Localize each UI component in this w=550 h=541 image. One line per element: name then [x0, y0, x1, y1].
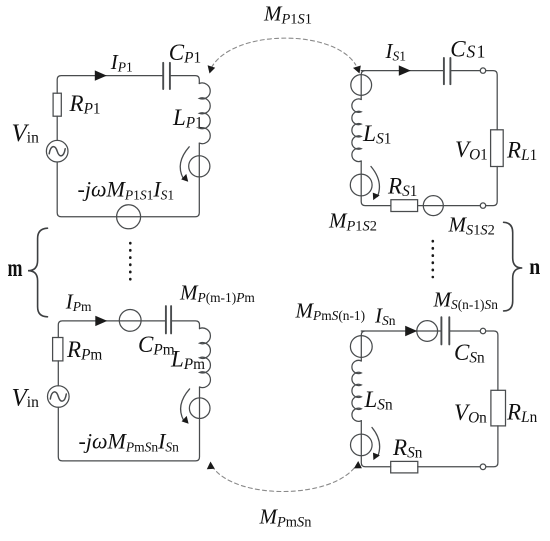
capacitor CS1 plates — [444, 58, 451, 84]
svg-text:Vin: Vin — [12, 385, 40, 412]
svg-text:VO1: VO1 — [455, 137, 488, 164]
svg-text:LPm: LPm — [170, 347, 205, 374]
rotation arrow near LP1 source — [180, 147, 189, 179]
arrowhead left of MPmSn arc — [207, 462, 215, 470]
AC source Vin sine (bottom) — [50, 392, 66, 401]
arrowhead right of MPmSn arc — [354, 461, 362, 468]
svg-text:CPm: CPm — [138, 332, 175, 359]
svg-text:n: n — [529, 254, 540, 280]
rotation arrowhead Sn — [373, 453, 380, 461]
wire loop S1 (top-right circuit) — [361, 71, 497, 206]
source circle on top wire Sn — [417, 321, 438, 342]
current arrow IP1 — [95, 70, 107, 80]
svg-text:RS1: RS1 — [387, 174, 417, 201]
capacitor CP1 plates — [163, 63, 170, 89]
svg-text:RP1: RP1 — [69, 91, 101, 118]
svg-text:MS1S2: MS1S2 — [448, 213, 495, 239]
capacitor CSn plates — [441, 317, 449, 344]
inductor LSn coil — [352, 360, 361, 421]
coupled source circle upper-left Sn — [350, 336, 372, 358]
coupled source circle lower-left Sn — [351, 434, 373, 456]
svg-text:IPm: IPm — [65, 289, 92, 314]
AC source Vin sine — [49, 147, 65, 156]
coupled source circle bottom-left S1 — [350, 174, 372, 196]
terminal circle bottom S1 — [480, 203, 485, 208]
mutual inductance dashed arc MPmSn — [212, 465, 357, 492]
terminal circle bottom Sn — [480, 464, 486, 470]
svg-text:LSn: LSn — [364, 387, 393, 414]
svg-text:MPmS(n-1): MPmS(n-1) — [295, 299, 366, 324]
svg-text:CSn: CSn — [454, 340, 485, 367]
rotation arrow near LS1 source — [371, 167, 379, 197]
svg-text:IS1: IS1 — [385, 39, 407, 64]
rotation arrow near LPm source — [181, 389, 190, 420]
current arrow IPm — [95, 316, 107, 326]
svg-text:m: m — [8, 253, 23, 282]
svg-text:Vin: Vin — [12, 120, 40, 147]
AC source Vin circle (bottom) — [48, 386, 70, 408]
capacitor CPm plates — [166, 306, 171, 333]
svg-text:MP(m-1)Pm: MP(m-1)Pm — [179, 280, 255, 305]
terminal circle top Sn — [480, 328, 485, 333]
inductor LP1 coil — [199, 83, 210, 144]
svg-text:RLn: RLn — [506, 400, 538, 427]
source circle on bottom wire S1 — [423, 196, 443, 216]
dotted ellipsis left — [129, 243, 132, 281]
dependent source circle on right wire Pm — [189, 398, 210, 419]
inductor LS1 coil — [352, 99, 361, 162]
svg-text:CS1: CS1 — [450, 37, 485, 62]
svg-text:LS1: LS1 — [362, 121, 391, 148]
svg-text:MP1S2: MP1S2 — [328, 209, 377, 235]
resistor RL1 — [491, 130, 504, 167]
svg-text:MS(n-1)Sn: MS(n-1)Sn — [433, 288, 499, 313]
svg-text:VOn: VOn — [454, 400, 487, 427]
dependent source circle on right wire P1 — [189, 156, 210, 177]
dotted ellipsis right — [431, 241, 434, 277]
mutual inductance dashed arc MP1S1 — [212, 38, 356, 67]
arrowhead left of MP1S1 arc — [208, 65, 216, 73]
inductor LPm coil — [200, 328, 211, 388]
svg-text:CP1: CP1 — [169, 40, 201, 67]
AC source Vin circle (top) — [46, 140, 68, 162]
resistor RLn — [491, 390, 506, 426]
current arrow IS1 — [399, 65, 411, 75]
rotation arrowhead S1 — [373, 193, 380, 201]
wire loop P1 (top-left circuit) — [57, 76, 199, 217]
svg-text:RPm: RPm — [66, 337, 102, 364]
terminal circle top S1 — [480, 68, 485, 73]
svg-text:MPmSn: MPmSn — [259, 505, 312, 531]
svg-text:IP1: IP1 — [110, 50, 133, 75]
svg-text:RSn: RSn — [392, 435, 423, 462]
arrowhead right of MP1S1 arc — [353, 66, 361, 74]
svg-text:MP1S1: MP1S1 — [263, 2, 312, 28]
svg-text:-jωMPmSnISn: -jωMPmSnISn — [79, 429, 180, 455]
resistor RS1 — [391, 200, 418, 212]
wire loop Sn (bottom-right circuit) — [361, 331, 498, 467]
resistor RSn — [391, 461, 418, 473]
rotation arrow near LSn source — [372, 428, 380, 457]
brace n (right) — [504, 222, 523, 311]
wire loop Pm (bottom-left circuit) — [58, 321, 199, 461]
brace m (left) — [28, 228, 48, 317]
rotation arrowhead P1 — [181, 174, 188, 182]
svg-text:-jωMP1S1IS1: -jωMP1S1IS1 — [78, 176, 175, 202]
rotation arrowhead Pm — [182, 416, 189, 424]
source circle on top wire Pm — [119, 310, 141, 332]
coupled source circle top-left S1 — [351, 75, 372, 96]
current arrow ISn — [405, 326, 417, 336]
resistor RP1 — [53, 93, 61, 116]
svg-text:ISn: ISn — [374, 304, 396, 329]
resistor RPm — [53, 338, 63, 361]
dependent source circle on bottom wire P1 — [117, 205, 141, 229]
svg-text:LP1: LP1 — [172, 105, 203, 132]
svg-text:RL1: RL1 — [506, 138, 537, 165]
